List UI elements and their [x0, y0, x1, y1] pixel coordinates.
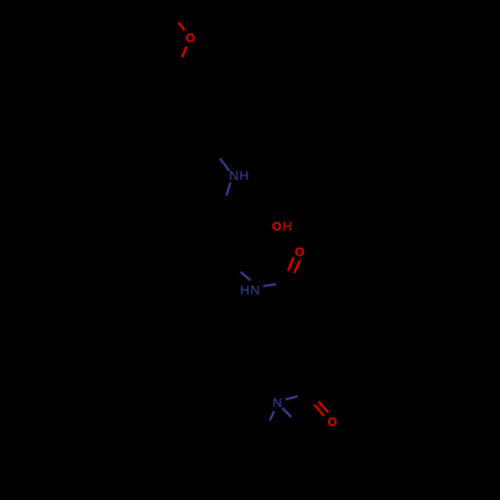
svg-text:O: O [328, 415, 338, 429]
bond N-C=O (amide 2 N to carbonyl half-bond) [286, 396, 298, 399]
svg-text:HN: HN [240, 282, 261, 297]
bond C=O double line a (amide 1) [288, 257, 293, 271]
bond C=O double line b (amide 2) [318, 401, 328, 412]
bond N-C=O (amide 1 N to carbonyl half-bond) [263, 284, 276, 286]
bond O-CH3 (methoxy methyl half-bond) [178, 22, 184, 30]
svg-text:O: O [186, 31, 196, 45]
bond N-CH2 (amine lower half-bond) [226, 182, 230, 195]
svg-text:OH: OH [272, 219, 293, 234]
svg-text:NH: NH [229, 168, 250, 183]
bond N-CH2 (ring right half-bond) [282, 408, 291, 417]
svg-text:O: O [295, 245, 305, 259]
bond HN-CH (amide 1 N to chain half-bond) [240, 272, 250, 281]
bond N-CH2 (ring left half-bond) [270, 411, 274, 421]
svg-text:N: N [273, 395, 282, 410]
bond N-CH2 (amine upper half-bond) [220, 158, 230, 171]
bond O-C(aryl) (methoxy ring half-bond) [182, 47, 187, 58]
bond C=O double line a (amide 2) [314, 405, 324, 416]
bond C=O double line b (amide 1) [294, 260, 300, 273]
